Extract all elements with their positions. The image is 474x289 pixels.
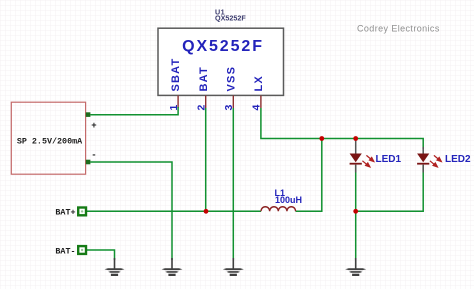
L1 value label 100uH [275,195,302,205]
IC U1 QX5252F body [158,28,284,95]
svg-text:BAT: BAT [198,66,210,91]
U1 pin name VSS [225,66,237,92]
svg-text:LED2: LED2 [445,154,471,165]
svg-text:SP 2.5V/200mA: SP 2.5V/200mA [17,137,83,147]
wire: LX pin 4 down to top rail [261,108,423,149]
wire: LED bottom rail [356,165,424,211]
svg-text:QX5252F: QX5252F [182,38,264,55]
terminal label BAT- [55,246,75,256]
LED2 [417,147,441,173]
svg-text:100uH: 100uH [275,195,302,205]
ground (BAT- net) [105,258,125,276]
wire: panel + to SBAT pin 1 [90,107,178,115]
U1 pin name BAT [198,66,210,91]
ground (VSS net) [223,258,244,276]
svg-text:LED1: LED1 [376,154,402,165]
LED1 [350,139,374,173]
LED1 label [376,154,402,165]
terminal BAT- [78,246,86,254]
wire: panel - to ground [90,162,172,260]
junction: LED1 anode on top rail [353,136,358,141]
LED2 label [445,154,471,165]
U1 pin 1 stub [177,96,179,109]
junction: LED1 cathode on bottom rail [353,209,358,214]
wire: BAT pin 2 down to BAT+ rail [205,108,207,211]
terminal BAT+ [78,208,86,216]
ground (LED cathode net) [345,258,366,276]
svg-text:+: + [91,121,96,131]
wire: BAT+ rail to inductor [86,210,261,212]
wire: VSS pin 3 down to ground [232,108,234,260]
svg-text:QX5252F: QX5252F [215,13,246,22]
wire: LED1 cathode to ground [355,165,357,260]
svg-text:Codrey Electronics: Codrey Electronics [357,24,440,34]
U1 pin number 1 [168,105,180,111]
svg-text:VSS: VSS [225,66,237,92]
U1 value label QX5252F (large) [182,38,264,55]
wire: inductor to top rail [296,139,322,212]
solar panel SP box [11,102,85,174]
title text Codrey Electronics [357,24,440,34]
svg-text:LX: LX [253,75,265,91]
svg-text:-: - [91,151,96,161]
solar panel pin + (positive terminal) [86,112,97,131]
solar panel value label SP 2.5V/200mA [17,137,83,147]
wire: BAT- to ground [86,250,115,260]
svg-text:SBAT: SBAT [170,58,182,92]
U1 pin number 4 [251,105,263,111]
U1 pin 2 stub [205,96,207,109]
ground (panel - net) [162,258,183,276]
solar panel pin - (negative terminal) [86,151,97,165]
U1 pin 4 stub [260,96,262,109]
terminal label BAT+ [55,208,75,218]
junction: inductor branch on top rail [319,136,324,141]
U1 pin 3 stub [232,96,234,109]
svg-text:BAT-: BAT- [55,246,75,256]
inductor L1 [261,207,296,212]
U1 pin name SBAT [170,58,182,92]
L1 reference label [275,188,286,198]
U1 pin number 3 [223,105,235,111]
U1 pin number 2 [196,105,208,111]
U1 part name (small) QX5252F [215,13,246,22]
U1 pin name LX [253,75,265,91]
junction: BAT pin to BAT+ rail [204,209,209,214]
svg-text:BAT+: BAT+ [55,208,75,218]
U1 reference designator [215,7,225,16]
